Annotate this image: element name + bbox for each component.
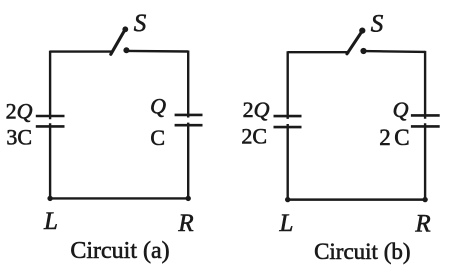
- svg-text:Circuit (b): Circuit (b): [314, 239, 410, 264]
- svg-text:2C: 2C: [241, 124, 267, 149]
- svg-text:Circuit (a): Circuit (a): [70, 238, 169, 264]
- svg-text:Q: Q: [393, 97, 409, 122]
- svg-text:R: R: [414, 210, 430, 237]
- svg-text:2C: 2C: [379, 125, 409, 150]
- svg-text:C: C: [150, 125, 165, 150]
- svg-text:S: S: [371, 11, 384, 38]
- svg-text:L: L: [279, 210, 294, 237]
- svg-text:R: R: [177, 210, 193, 237]
- svg-text:3C: 3C: [6, 125, 32, 150]
- svg-text:L: L: [43, 208, 58, 235]
- svg-text:2Q: 2Q: [6, 98, 33, 123]
- svg-text:2Q: 2Q: [243, 97, 270, 122]
- svg-text:S: S: [134, 10, 147, 37]
- svg-text:Q: Q: [150, 94, 166, 119]
